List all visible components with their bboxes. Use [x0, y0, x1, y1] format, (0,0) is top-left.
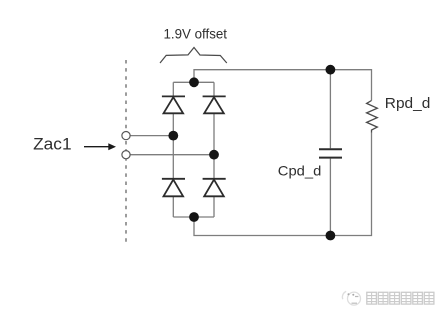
svg-text:1.9V offset: 1.9V offset [164, 27, 228, 42]
svg-text:Cpd_d: Cpd_d [278, 163, 322, 179]
svg-text:Rpd_d: Rpd_d [385, 96, 431, 112]
svg-text:Zac1: Zac1 [33, 136, 72, 154]
